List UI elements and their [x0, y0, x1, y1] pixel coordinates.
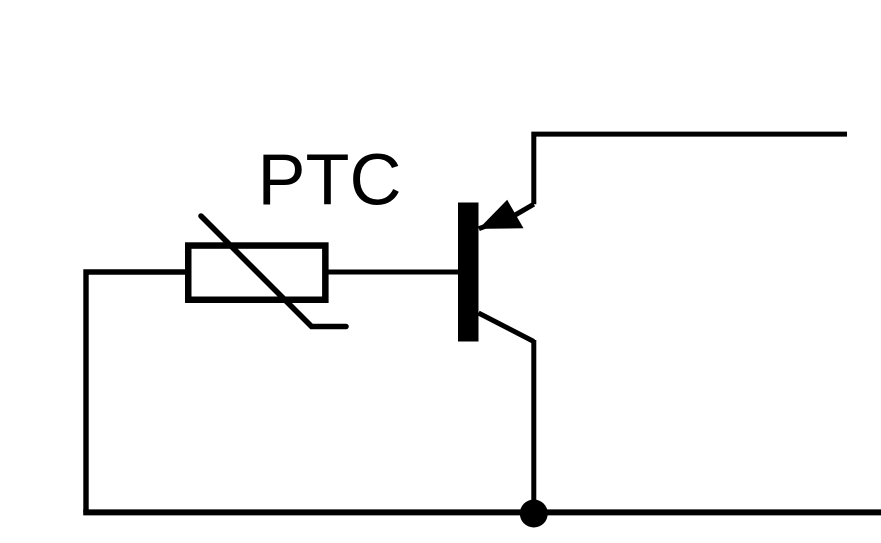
svg-text:PTC: PTC	[258, 141, 402, 221]
junction node (collector to bottom rail)	[520, 500, 548, 528]
thermistor RT1 strike line with foot	[201, 216, 346, 327]
wire left branch (resistor left to bottom rail)	[86, 272, 185, 512]
wire bottom rail	[83, 509, 881, 515]
wire top supply (to emitter)	[534, 134, 847, 204]
wire base (resistor right to transistor base)	[326, 270, 459, 275]
transistor Q1 emitter line	[479, 204, 534, 229]
wire collector (transistor to bottom rail)	[531, 340, 536, 513]
transistor Q1 collector line	[479, 313, 534, 342]
thermistor RT1 (PTC) body	[188, 246, 325, 300]
transistor Q1 base bar	[458, 203, 479, 342]
transistor Q1 emitter arrow (PNP)	[479, 200, 524, 229]
